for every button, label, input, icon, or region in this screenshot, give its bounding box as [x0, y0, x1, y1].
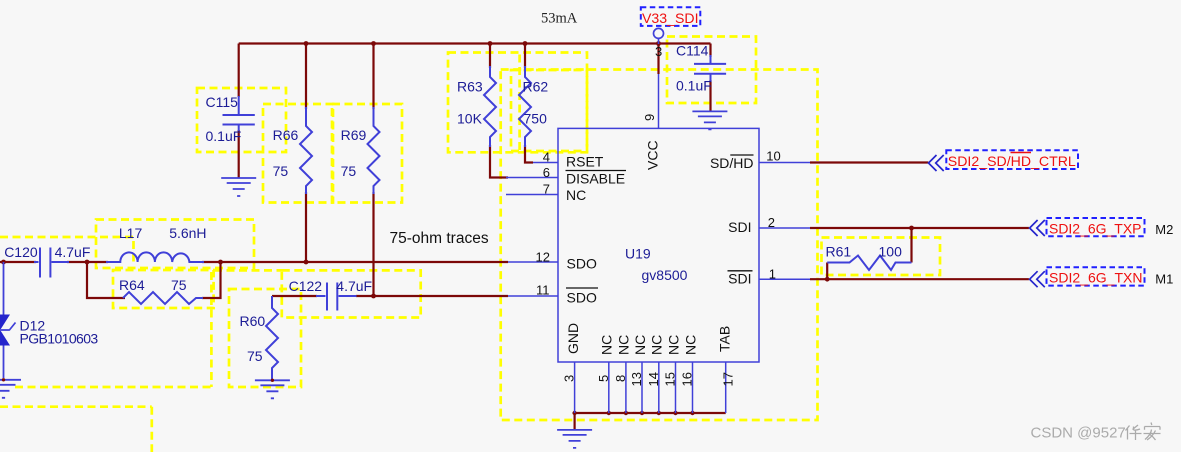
wire pin 2 to port TXP — [810, 227, 1029, 229]
wire C114 branch — [709, 44, 711, 112]
wire R66 branch — [305, 44, 307, 263]
svg-text:SD/HD: SD/HD — [710, 155, 754, 171]
pin stub GND 3 — [574, 362, 576, 413]
junction SDO/R66 — [304, 260, 309, 265]
svg-text:SDI2_6G_TXP: SDI2_6G_TXP — [1049, 221, 1142, 237]
svg-text:GND: GND — [565, 323, 581, 354]
svg-text:SDO: SDO — [567, 256, 597, 272]
pin stub SDI 2 — [759, 227, 810, 229]
highlight box L17 — [96, 220, 254, 269]
pin stub NC 15 — [675, 362, 677, 413]
resistor R62 — [519, 66, 531, 147]
svg-text:R69: R69 — [341, 127, 367, 143]
junction gnd net pin13 — [640, 411, 644, 415]
junction SDO/L17 left — [85, 260, 90, 265]
svg-text:U19: U19 — [625, 246, 651, 262]
wire R64 branch right — [202, 262, 221, 298]
capacitor C115 — [223, 96, 255, 131]
svg-text:1: 1 — [769, 267, 776, 282]
svg-text:R64: R64 — [119, 277, 145, 293]
svg-text:5: 5 — [596, 375, 611, 382]
highlight box R64 — [113, 270, 214, 308]
pin stub SD/HD 10 — [759, 162, 810, 164]
highlight box C114 — [667, 37, 756, 104]
hanzi an — [1144, 423, 1161, 441]
junction bus/R62 — [523, 41, 528, 46]
junction gnd net pin15 — [673, 411, 677, 415]
junction SDO/D12 — [1, 260, 6, 265]
highlight line bottom-left corner right — [150, 407, 153, 452]
wire R63 branch to pin 6 — [490, 44, 508, 178]
svg-text:SDI2_SD/HD_CTRL: SDI2_SD/HD_CTRL — [948, 153, 1076, 169]
svg-text:13: 13 — [629, 372, 644, 386]
junction pin1/R61 — [825, 277, 830, 282]
pin stub NC 13 — [641, 362, 643, 413]
svg-text:C120: C120 — [4, 244, 38, 260]
junction SDOn/R69 — [371, 294, 376, 299]
highlight box C122 — [282, 270, 421, 317]
pin stub RSET 4 — [533, 162, 558, 164]
ground D12 — [0, 380, 21, 398]
highlight line R64-to-C122 connector — [214, 269, 282, 272]
svg-text:2: 2 — [768, 215, 775, 230]
svg-text:SDI: SDI — [728, 271, 751, 287]
wire GND net bottom pins — [575, 413, 726, 430]
svg-text:SDI2_6G_TXN: SDI2_6G_TXN — [1049, 270, 1143, 286]
junction bus/V33 — [656, 41, 661, 46]
resistor R63 — [484, 66, 496, 147]
capacitor C120 — [34, 248, 69, 278]
svg-text:75: 75 — [341, 163, 357, 179]
svg-text:R60: R60 — [240, 313, 266, 329]
svg-text:V33_SDI: V33_SDI — [642, 10, 699, 26]
svg-text:SDO: SDO — [567, 289, 597, 305]
svg-text:RSET: RSET — [566, 153, 604, 169]
svg-text:NC: NC — [682, 335, 698, 355]
resistor R66 — [300, 107, 312, 194]
power symbol V33_SDI circle — [654, 28, 664, 38]
svg-text:11: 11 — [536, 283, 550, 298]
svg-text:75: 75 — [247, 348, 263, 364]
svg-text:R63: R63 — [457, 79, 483, 95]
wire R62 branch to pin 4 — [525, 44, 533, 163]
svg-text:7: 7 — [543, 182, 550, 197]
svg-text:C115: C115 — [206, 94, 239, 110]
junction pin2/R61 — [909, 226, 914, 231]
resistor R60 — [266, 296, 278, 380]
svg-text:4.7uF: 4.7uF — [55, 244, 91, 260]
svg-text:16: 16 — [680, 372, 695, 386]
svg-text:L17: L17 — [119, 225, 143, 241]
pin stub NC 14 — [658, 362, 660, 413]
svg-text:DISABLE: DISABLE — [566, 170, 625, 186]
off-page port SDI2_6G_TXN — [1030, 267, 1145, 287]
IC U19 gv8500 chip body — [558, 128, 759, 362]
wire R69 branch — [372, 44, 374, 297]
svg-text:6: 6 — [543, 165, 550, 180]
svg-text:12: 12 — [536, 250, 550, 265]
ground U19 GND — [557, 430, 592, 448]
junction gnd net pin14 — [657, 411, 661, 415]
highlight line left-network bottom — [15, 386, 211, 389]
inductor L17 — [106, 252, 204, 262]
wire C115 stem — [238, 44, 240, 179]
capacitor C122 — [316, 283, 357, 311]
highlight line left-network top — [0, 237, 134, 266]
svg-text:10K: 10K — [457, 111, 483, 127]
svg-text:17: 17 — [721, 372, 736, 386]
svg-text:4.7uF: 4.7uF — [336, 278, 372, 294]
junction SDO/L17 right — [218, 260, 223, 265]
pin stub NC 8 — [625, 362, 627, 413]
highlight box R66 — [263, 104, 333, 203]
pin stub TAB 17 — [725, 362, 727, 413]
svg-text:NC: NC — [665, 335, 681, 355]
highlight line left-network right — [210, 272, 213, 387]
resistor R61 — [827, 256, 911, 271]
svg-text:750: 750 — [524, 111, 548, 127]
junction bus/R66 — [304, 41, 309, 46]
pin stub NC 16 — [692, 362, 694, 413]
pin stub DISABLE 6 — [506, 177, 558, 179]
power port V33_SDI — [641, 7, 701, 26]
svg-text:R62: R62 — [523, 79, 549, 95]
svg-text:VCC: VCC — [645, 140, 661, 170]
pin stub SDO 12 — [508, 261, 558, 263]
hanzi hua — [1126, 425, 1142, 440]
highlight box R61 — [822, 238, 941, 276]
resistor R69 — [368, 107, 380, 194]
ground R60 — [255, 380, 290, 398]
pin stub SDOn 11 — [508, 295, 558, 297]
junction bus/R63 — [488, 41, 493, 46]
wire pin 2 branch to R61 — [910, 228, 912, 263]
highlight box C115 — [197, 88, 286, 152]
svg-text:14: 14 — [646, 372, 661, 386]
highlight line R63 box right edge — [518, 55, 521, 153]
wire pin 1 to port TXN — [810, 278, 1029, 280]
svg-text:0.1uF: 0.1uF — [676, 78, 712, 94]
highlight box R62 — [511, 70, 587, 151]
svg-text:15: 15 — [663, 372, 678, 386]
highlight box U19 region — [501, 70, 818, 421]
pin stub SDIn 1 — [759, 278, 810, 280]
wire SDO_N trace pin 11 — [272, 295, 508, 297]
wire R64 branch left — [87, 262, 125, 298]
highlight box R60 — [229, 289, 301, 387]
svg-text:3: 3 — [562, 375, 577, 382]
svg-text:PGB1010603: PGB1010603 — [20, 331, 99, 347]
watermark CSDN — [1031, 423, 1161, 442]
junction bus/R69 — [371, 41, 376, 46]
highlight box R63 R62 outer — [448, 53, 587, 153]
svg-text:4: 4 — [543, 150, 550, 165]
junction gnd net pin5 — [607, 411, 611, 415]
junction gnd net pin8 — [624, 411, 628, 415]
junction D12 ground stem — [2, 378, 5, 381]
off-page port SDI2_SD/HD_CTRL — [929, 150, 1079, 171]
junction gnd net pin16 — [690, 411, 694, 415]
svg-text:R66: R66 — [273, 127, 299, 143]
svg-text:C122: C122 — [289, 278, 323, 294]
svg-text:3: 3 — [655, 44, 662, 59]
svg-text:NC: NC — [649, 335, 665, 355]
svg-text:TAB: TAB — [717, 326, 733, 352]
svg-text:NC: NC — [632, 335, 648, 355]
svg-text:75: 75 — [171, 277, 187, 293]
svg-text:75: 75 — [273, 163, 289, 179]
junction gnd net pin3 — [572, 411, 576, 415]
wire pin 10 to port — [810, 161, 928, 163]
svg-text:M1: M1 — [1155, 272, 1173, 287]
diode D12 TVS — [0, 262, 16, 378]
pin stub NC 5 — [608, 362, 610, 413]
svg-text:CSDN @9527: CSDN @9527 — [1031, 425, 1126, 442]
junction R60 ground stem — [271, 379, 274, 382]
svg-text:R61: R61 — [826, 244, 852, 260]
capacitor C114 — [694, 55, 726, 82]
svg-text:C114: C114 — [676, 43, 709, 59]
svg-text:NC: NC — [599, 335, 615, 355]
ground C114 — [692, 111, 727, 129]
power symbol stem — [658, 39, 660, 44]
wire V33 stem to pin 9 — [657, 44, 659, 75]
off-page port SDI2_6G_TXP — [1030, 218, 1145, 237]
svg-text:NC: NC — [616, 335, 632, 355]
svg-text:0.1uF: 0.1uF — [206, 128, 242, 144]
svg-text:SDI: SDI — [728, 219, 751, 235]
wire V33 power bus — [239, 42, 711, 44]
svg-text:NC: NC — [566, 187, 586, 203]
svg-text:53mA: 53mA — [541, 11, 578, 27]
resistor R64 — [123, 292, 203, 304]
svg-text:9: 9 — [642, 114, 657, 121]
ground C115 — [221, 178, 256, 196]
svg-text:10: 10 — [766, 149, 780, 164]
svg-text:M2: M2 — [1155, 222, 1173, 237]
svg-text:75-ohm traces: 75-ohm traces — [390, 230, 489, 247]
wire R61 left lead — [826, 263, 828, 280]
pin stub NC 7 — [506, 194, 558, 196]
svg-text:gv8500: gv8500 — [642, 267, 688, 283]
wire SDO trace pin 12 — [0, 261, 508, 263]
highlight line bottom-left corner top — [0, 405, 152, 408]
svg-text:5.6nH: 5.6nH — [169, 225, 206, 241]
svg-text:8: 8 — [613, 375, 628, 382]
highlight box R69 — [332, 104, 402, 203]
svg-text:100: 100 — [879, 244, 903, 260]
pin stub VCC 9 — [658, 74, 660, 128]
